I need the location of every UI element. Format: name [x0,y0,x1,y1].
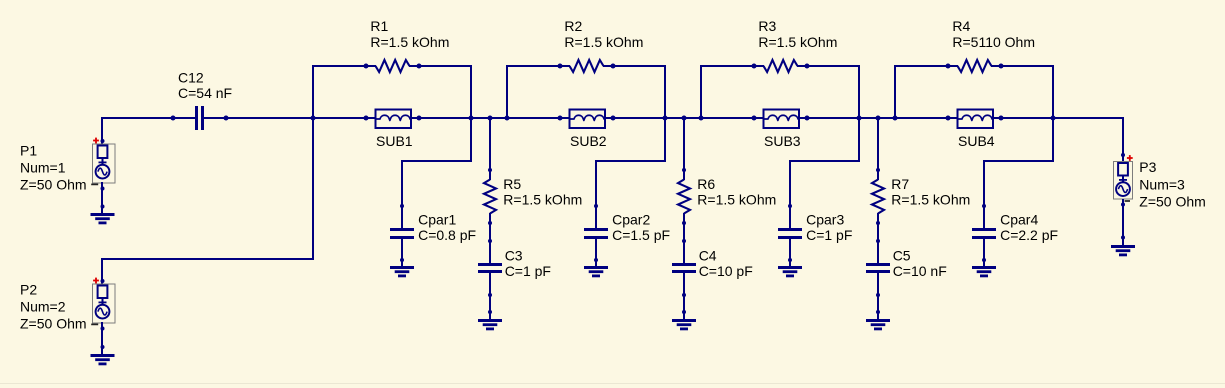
terminal dot SUB2 pin1 [558,116,563,121]
svg-text:Z=50 Ohm: Z=50 Ohm [20,176,87,192]
terminal dot R5 pin2 [488,221,492,225]
svg-text:SUB2: SUB2 [570,133,607,149]
svg-text:Num=2: Num=2 [20,299,66,315]
resistor R7 [872,180,884,214]
terminal dot Cpar4 pin2 [982,258,986,262]
capacitor C12 [195,106,198,130]
terminal dot P1 pin2 [101,187,105,191]
terminal dot C5 pin2 [876,293,880,297]
wire [595,160,597,229]
inductor block SUB4 [958,110,994,129]
wire [877,272,879,319]
junction node [505,116,510,121]
svg-text:R=1.5 kOhm: R=1.5 kOhm [370,34,449,50]
capacitor Cpar2 [584,228,608,231]
wire [401,160,403,229]
svg-text:R2: R2 [564,18,582,34]
junction node ground [488,310,492,314]
inductor block SUB3 [764,110,800,129]
terminal dot C3 pin2 [488,293,492,297]
terminal dot Cpar1 pin1 [400,204,404,208]
terminal dot C3 pin1 [488,239,492,243]
svg-text:Cpar2: Cpar2 [612,211,650,227]
capacitor Cpar1 [390,228,414,231]
svg-text:Cpar3: Cpar3 [806,211,844,227]
wire [312,66,314,260]
junction node [663,116,668,121]
junction node ground [101,205,105,209]
port P2 [93,284,116,323]
terminal dot R6 pin2 [682,221,686,225]
svg-text:C=10 pF: C=10 pF [699,263,753,279]
terminal dot SUB2 pin2 [611,116,616,121]
terminal dot SUB3 pin1 [752,116,757,121]
terminal dot P1 pin1 [101,139,105,143]
wire [683,213,685,264]
svg-text:Z=50 Ohm: Z=50 Ohm [1139,194,1206,210]
svg-text:C=54 nF: C=54 nF [178,85,232,101]
terminal dot P2 pin1 [101,279,105,283]
wire [894,66,896,119]
resistor R4 [958,60,992,72]
ground P2 [91,354,115,357]
svg-text:C=0.8 pF: C=0.8 pF [418,227,476,243]
terminal dot SUB1 pin2 [417,116,422,121]
terminal dot C4 pin1 [682,239,686,243]
terminal dot SUB4 pin2 [999,116,1004,121]
terminal dot R7 pin1 [876,168,880,172]
svg-text:Num=3: Num=3 [1139,176,1185,192]
junction node [876,116,881,121]
terminal dot R7 pin2 [876,221,880,225]
svg-text:R=1.5 kOhm: R=1.5 kOhm [503,192,582,208]
wire [409,65,472,67]
svg-text:C5: C5 [893,248,911,264]
svg-text:C=1.5 pF: C=1.5 pF [612,227,670,243]
wire [789,160,859,162]
resistor R6 [678,180,690,214]
wire [595,160,665,162]
capacitor C5 [866,263,890,266]
svg-text:R=1.5 kOhm: R=1.5 kOhm [891,192,970,208]
resistor R3 [764,60,798,72]
terminal dot Cpar1 pin2 [400,258,404,262]
junction node ground [682,310,686,314]
wire [489,272,491,319]
wire [401,160,471,162]
terminal dot R6 pin1 [682,168,686,172]
resistor R1 [376,60,410,72]
svg-text:C12: C12 [178,69,204,85]
wire [506,66,508,119]
svg-text:R=1.5 kOhm: R=1.5 kOhm [564,34,643,50]
wire [102,117,195,119]
capacitor Cpar4 [972,228,996,231]
wire [401,238,403,266]
svg-text:R=1.5 kOhm: R=1.5 kOhm [697,192,776,208]
ground P1 [91,213,115,216]
wire [0,383,1225,385]
resistor R2 [570,60,604,72]
wire [101,182,103,213]
ground P3 [1111,245,1135,248]
wire [312,65,376,67]
svg-text:C3: C3 [505,248,523,264]
terminal dot R4 pin2 [999,64,1004,69]
ground Cpar4 [972,266,996,269]
ground Cpar2 [584,266,608,269]
terminal dot P3 pin2 [1121,203,1125,207]
terminal dot C12 pin1 [171,116,176,121]
svg-text:SUB1: SUB1 [376,133,413,149]
svg-text:P2: P2 [20,282,37,298]
capacitor C4 [672,263,696,266]
wire [1053,117,1123,119]
wire [789,238,791,266]
ground Cpar1 [390,266,414,269]
svg-text:C=2.2 pF: C=2.2 pF [1000,227,1058,243]
junction node ground [876,310,880,314]
svg-text:C=10 nF: C=10 nF [893,263,947,279]
wire [411,117,570,119]
wire [101,322,103,354]
terminal dot P2 pin2 [101,327,105,331]
capacitor C3 [478,263,502,266]
ground Cpar3 [778,266,802,269]
ground C5 [866,319,890,322]
terminal dot Cpar2 pin2 [594,258,598,262]
terminal dot Cpar4 pin1 [982,204,986,208]
wire [204,117,376,119]
ground C3 [478,319,502,322]
junction node [699,116,704,121]
junction node [682,116,687,121]
wire [877,213,879,264]
wire [858,65,860,162]
wire [506,65,570,67]
wire [101,117,103,145]
svg-text:R=5110 Ohm: R=5110 Ohm [952,34,1035,50]
terminal dot R3 pin1 [752,64,757,69]
wire [799,117,958,119]
svg-text:SUB4: SUB4 [958,133,995,149]
wire [797,65,860,67]
terminal dot SUB3 pin2 [805,116,810,121]
wire [894,65,958,67]
terminal dot C5 pin1 [876,239,880,243]
wire [595,238,597,266]
terminal dot C4 pin2 [682,293,686,297]
terminal dot Cpar3 pin2 [788,258,792,262]
wire [470,65,472,162]
junction node ground [1121,236,1125,240]
svg-text:SUB3: SUB3 [764,133,801,149]
junction node [469,116,474,121]
wire [983,160,1053,162]
terminal dot R5 pin1 [488,168,492,172]
inductor block SUB2 [570,110,606,129]
port P1 [93,144,116,183]
wire [605,117,764,119]
terminal dot Cpar3 pin1 [788,204,792,208]
svg-text:R4: R4 [952,18,970,34]
wire [991,65,1054,67]
svg-text:P1: P1 [20,142,37,158]
wire [683,118,685,180]
terminal dot R1 pin1 [364,64,369,69]
wire [877,118,879,180]
wire [789,160,791,229]
svg-text:P3: P3 [1139,159,1156,175]
svg-text:Num=1: Num=1 [20,159,66,175]
wire [983,160,985,229]
svg-text:R1: R1 [370,18,388,34]
wire [489,213,491,264]
svg-text:Z=50 Ohm: Z=50 Ohm [20,316,87,332]
svg-text:C=1 pF: C=1 pF [505,263,551,279]
wire [700,66,702,119]
wire [603,65,666,67]
svg-text:Cpar1: Cpar1 [418,211,456,227]
wire [700,65,764,67]
terminal dot Cpar2 pin1 [594,204,598,208]
wire [1052,65,1054,162]
junction node [311,116,316,121]
junction node [857,116,862,121]
junction node [1051,116,1056,121]
ground C4 [672,319,696,322]
wire [683,272,685,319]
terminal dot C12 pin2 [224,116,229,121]
port P3 [1114,162,1133,200]
wire [489,118,491,180]
wire [993,117,1123,119]
svg-text:C4: C4 [699,248,717,264]
wire [101,258,103,284]
resistor R5 [484,180,496,214]
junction node ground [101,345,105,349]
capacitor Cpar3 [778,228,802,231]
terminal dot R4 pin1 [946,64,951,69]
wire [664,65,666,162]
svg-text:R6: R6 [697,176,715,192]
svg-text:R=1.5 kOhm: R=1.5 kOhm [758,34,837,50]
svg-text:C=1 pF: C=1 pF [806,227,852,243]
wire [1122,199,1124,245]
terminal dot R2 pin2 [611,64,616,69]
svg-text:Cpar4: Cpar4 [1000,211,1038,227]
terminal dot SUB1 pin1 [364,116,369,121]
junction node [488,116,493,121]
wire [983,238,985,266]
junction node [893,116,898,121]
svg-text:R3: R3 [758,18,776,34]
svg-text:R7: R7 [891,176,909,192]
terminal dot R3 pin2 [805,64,810,69]
terminal dot R1 pin2 [417,64,422,69]
inductor block SUB1 [376,110,412,129]
terminal dot P3 pin1 [1121,153,1125,157]
terminal dot R2 pin1 [558,64,563,69]
terminal dot SUB4 pin1 [946,116,951,121]
svg-text:R5: R5 [503,176,521,192]
